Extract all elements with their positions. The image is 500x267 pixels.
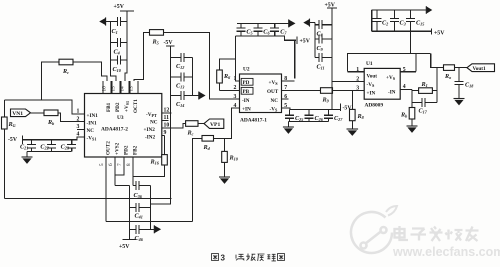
svg-text:+5V: +5V bbox=[114, 4, 125, 10]
wire left rail of bottom caps bbox=[115, 185, 130, 239]
capacitor C6 bbox=[253, 23, 270, 36]
svg-text:PD2: PD2 bbox=[115, 102, 121, 112]
power +5V bottom bbox=[119, 239, 137, 250]
pin 9 bbox=[162, 130, 167, 136]
svg-text:PD: PD bbox=[243, 80, 250, 86]
resistor R6 (PD pull) bbox=[217, 70, 231, 83]
wire junction down to R10 bbox=[224, 138, 226, 151]
pin 1 U1 bbox=[347, 67, 364, 73]
ground arrow left of C1 bbox=[99, 17, 110, 25]
svg-text:OUT2: OUT2 bbox=[106, 141, 112, 155]
svg-text:C7: C7 bbox=[280, 29, 287, 36]
input tag VP1 bbox=[204, 119, 224, 128]
resistor Rb bbox=[44, 110, 58, 126]
pin 13 box bbox=[129, 81, 138, 94]
svg-text:8: 8 bbox=[126, 163, 132, 166]
wire -5V rail to pin4 bbox=[23, 137, 85, 140]
wire up to Rd bbox=[193, 138, 203, 221]
svg-text:-IN1: -IN1 bbox=[87, 121, 97, 127]
svg-text:-IN: -IN bbox=[242, 98, 250, 104]
resistor R16 bbox=[150, 155, 168, 166]
resistor Ro bbox=[444, 65, 455, 80]
svg-text:C10: C10 bbox=[113, 66, 122, 73]
svg-text:NC: NC bbox=[150, 119, 158, 125]
output tag Vout1 bbox=[467, 64, 495, 72]
wire output node down to Ro bbox=[431, 54, 444, 68]
svg-text:R1: R1 bbox=[421, 81, 428, 88]
svg-text:RG: RG bbox=[8, 121, 16, 128]
svg-text:NC: NC bbox=[87, 128, 95, 134]
capacitor C17 (parallel R1) bbox=[412, 91, 437, 115]
svg-text:FB2: FB2 bbox=[133, 145, 139, 155]
capacitor C8 bbox=[315, 20, 332, 37]
svg-text:U1: U1 bbox=[366, 61, 373, 67]
svg-text:7: 7 bbox=[117, 163, 123, 166]
capacitor C11 bbox=[315, 53, 332, 70]
resistor Rc2 on VP1 wire bbox=[186, 121, 198, 137]
svg-text:C4: C4 bbox=[114, 49, 120, 56]
svg-text:4: 4 bbox=[234, 103, 237, 109]
wire R5 to U2 pin3 -IN bbox=[164, 32, 240, 99]
pin 4 U1 bbox=[400, 84, 412, 90]
capacitor C13 bbox=[171, 73, 193, 90]
svg-text:1: 1 bbox=[77, 109, 80, 115]
capacitor C41 bbox=[130, 203, 151, 219]
pin 6 box bbox=[108, 163, 114, 166]
svg-text:+VS1: +VS1 bbox=[124, 101, 130, 112]
svg-text:OUT: OUT bbox=[267, 89, 279, 95]
svg-text:C2: C2 bbox=[382, 20, 388, 27]
capacitor C21 bbox=[20, 140, 36, 152]
svg-text:C27: C27 bbox=[334, 115, 343, 122]
resistor R5 bbox=[150, 30, 164, 46]
wire pin6 drop to cap stack bbox=[114, 175, 116, 185]
svg-text:C1: C1 bbox=[112, 28, 118, 35]
svg-text:ADA4817-2: ADA4817-2 bbox=[101, 127, 128, 133]
svg-text:C12: C12 bbox=[176, 63, 184, 70]
ground arrow right of top rail bbox=[426, 6, 432, 14]
svg-text:Rb: Rb bbox=[400, 112, 407, 119]
wire R9 to U1 pin3 bbox=[333, 90, 362, 92]
wire bypass bottom rail bbox=[288, 121, 328, 123]
svg-text:Rc: Rc bbox=[62, 68, 69, 75]
power +5V right of U2 caps bbox=[297, 36, 311, 44]
wire U1 top caps rails bbox=[372, 10, 431, 31]
svg-text:C11: C11 bbox=[317, 64, 325, 71]
pin 5 U2 bbox=[282, 103, 291, 110]
svg-text:+VS: +VS bbox=[386, 75, 396, 81]
ground arrow right of C46 bbox=[151, 225, 162, 233]
wire left vertical feedback bbox=[3, 100, 5, 117]
power +5V mid-right bbox=[325, 3, 338, 9]
svg-text:3: 3 bbox=[356, 85, 359, 91]
pin 2 U2 bbox=[220, 85, 240, 91]
wire +5V stem through stack caps bbox=[331, 8, 333, 82]
pin 5 box bbox=[99, 163, 105, 166]
svg-text:+5V: +5V bbox=[434, 31, 445, 37]
capacitor C18 bbox=[455, 68, 475, 99]
wire cap left rail down to pin15 PD1 bbox=[110, 22, 115, 82]
pin 7 box bbox=[117, 163, 123, 166]
wire Ro to Vout1 bbox=[455, 67, 468, 69]
op-amp U1 AD8009 bbox=[364, 61, 400, 109]
ground below Rb2 bbox=[407, 119, 418, 133]
power -5V right end bbox=[341, 104, 353, 112]
wire R6 top to cap rail vertical bbox=[220, 59, 236, 70]
svg-text:VP1: VP1 bbox=[210, 122, 220, 128]
ground below R8 bbox=[347, 121, 359, 136]
pin 5 U1 bbox=[400, 67, 416, 73]
svg-text:C22: C22 bbox=[40, 144, 48, 151]
svg-text:+IN: +IN bbox=[367, 90, 376, 96]
capacitor C15 bbox=[406, 10, 424, 31]
wire VN1 to Rb bbox=[31, 112, 45, 114]
capacitor C25 bbox=[285, 110, 303, 123]
power -5V left bbox=[8, 136, 23, 145]
svg-text:4: 4 bbox=[77, 132, 80, 138]
svg-text:C13: C13 bbox=[176, 83, 184, 90]
ground arrow left of stack bbox=[303, 19, 315, 27]
svg-text:PB: PB bbox=[243, 89, 250, 95]
resistor R8 (load on -IN) bbox=[350, 91, 365, 121]
pin 14 box bbox=[120, 81, 129, 94]
svg-text:R9: R9 bbox=[322, 97, 330, 104]
svg-text:5: 5 bbox=[99, 163, 105, 166]
svg-text:3: 3 bbox=[77, 124, 80, 130]
svg-text:Ro: Ro bbox=[444, 73, 451, 80]
svg-text:3: 3 bbox=[221, 254, 226, 263]
wire OCT1 pin13 up to R5 bbox=[134, 32, 150, 81]
svg-text:C46: C46 bbox=[135, 235, 144, 242]
pin 10 bbox=[162, 123, 186, 129]
op-amp U2 ADA4817-1 bbox=[240, 67, 282, 124]
wire right rail of bottom caps bbox=[150, 185, 152, 229]
pin 6 U2 bbox=[282, 94, 289, 100]
svg-text:-VS: -VS bbox=[270, 107, 278, 113]
svg-text:C14: C14 bbox=[176, 101, 184, 108]
wire U2 caps left rail down to pin1 bbox=[235, 36, 239, 81]
svg-text:C23: C23 bbox=[61, 144, 69, 151]
svg-text:15: 15 bbox=[111, 86, 117, 92]
capacitor C5 bbox=[236, 23, 252, 36]
capacitor C2 bbox=[372, 10, 388, 31]
ground below bypass rail bbox=[283, 122, 294, 134]
svg-text:C9: C9 bbox=[317, 45, 324, 52]
wire OUT2 pin5 long vertical bbox=[105, 157, 107, 222]
wire bottom feedback rail bbox=[4, 198, 171, 200]
wire U2 caps top rail bbox=[237, 22, 289, 24]
resistor R10 bbox=[222, 151, 239, 162]
capacitor C22 bbox=[40, 140, 56, 152]
svg-text:C17: C17 bbox=[419, 108, 428, 115]
resistor R9 (inline OUT) bbox=[321, 88, 333, 104]
ground arrow right of C14 bbox=[193, 92, 206, 100]
svg-text:U3: U3 bbox=[117, 115, 124, 121]
wire -5V stem down to bottom jog bbox=[151, 46, 171, 204]
wire R16 to pin8 FB2 bbox=[133, 157, 165, 185]
svg-text:-5V: -5V bbox=[8, 137, 18, 143]
svg-text:3: 3 bbox=[234, 94, 237, 100]
svg-text:+5V: +5V bbox=[300, 39, 311, 45]
svg-text:6: 6 bbox=[108, 163, 114, 166]
svg-text:+VS2: +VS2 bbox=[115, 142, 121, 155]
resistor Rc (top feedback) bbox=[59, 59, 73, 75]
wire RG down to bottom feedback rail bbox=[3, 129, 5, 199]
wire pin9 down to R16 bbox=[164, 136, 166, 155]
svg-text:-VS: -VS bbox=[367, 82, 375, 88]
svg-text:14: 14 bbox=[120, 86, 126, 92]
svg-text:R8: R8 bbox=[357, 113, 365, 120]
svg-text:R10: R10 bbox=[229, 155, 239, 162]
svg-text:C5: C5 bbox=[246, 29, 252, 36]
wire U2 bypass top rail (-5V rail) bbox=[290, 109, 341, 111]
resistor R1 bbox=[419, 81, 433, 93]
capacitor C4 bbox=[110, 38, 127, 56]
svg-text:-5V: -5V bbox=[164, 40, 174, 46]
ground below R10 bbox=[219, 162, 230, 184]
ground below C18 bbox=[454, 99, 465, 106]
capacitor C12 bbox=[171, 53, 193, 70]
pin 3 U1 bbox=[356, 85, 364, 91]
svg-text:+IN2: +IN2 bbox=[144, 127, 156, 133]
capacitor C27 bbox=[324, 110, 343, 123]
svg-text:Vout1: Vout1 bbox=[473, 66, 486, 72]
pin 15 box bbox=[111, 81, 120, 94]
svg-text:2: 2 bbox=[77, 116, 80, 122]
pin 7 U2 OUT wire bbox=[282, 85, 321, 91]
resistor Rb2 below pin4 bbox=[400, 102, 415, 119]
svg-text:PD2: PD2 bbox=[124, 145, 130, 155]
wire cap bottom rail bbox=[27, 151, 72, 153]
capacitor C10 bbox=[110, 56, 127, 74]
svg-text:R6: R6 bbox=[223, 73, 231, 80]
wire R6 bottom to pin2 bbox=[219, 83, 221, 91]
svg-text:C21: C21 bbox=[20, 144, 28, 151]
svg-text:Rd: Rd bbox=[203, 144, 211, 151]
svg-text:C41: C41 bbox=[135, 213, 143, 220]
pin 16 box bbox=[102, 81, 111, 94]
wire pin6-pin7 loop bbox=[115, 157, 124, 175]
pin 3 bbox=[77, 124, 85, 130]
svg-text:VN1: VN1 bbox=[12, 111, 23, 117]
svg-text:OCT1: OCT1 bbox=[133, 99, 139, 113]
svg-text:Rc: Rc bbox=[187, 130, 194, 137]
svg-text:16: 16 bbox=[102, 86, 108, 92]
svg-text:C8: C8 bbox=[317, 31, 324, 38]
capacitor C46 bbox=[130, 225, 151, 242]
capacitor C9 bbox=[315, 35, 332, 53]
svg-text:C18: C18 bbox=[465, 82, 474, 89]
wire R1 right up to output node bbox=[432, 68, 437, 91]
svg-text:R5: R5 bbox=[152, 39, 159, 46]
capacitor C23 bbox=[61, 140, 77, 152]
svg-text:-VPT: -VPT bbox=[146, 112, 157, 118]
watermark logo circle bbox=[351, 206, 397, 253]
capacitor C3 bbox=[390, 10, 406, 31]
wire feedback over U1 bbox=[347, 54, 430, 72]
capacitor C36 bbox=[133, 181, 151, 199]
wire pin8 up to +5V stub bbox=[294, 40, 296, 78]
svg-text:+5V: +5V bbox=[119, 244, 130, 250]
svg-text:13: 13 bbox=[129, 86, 135, 92]
input tag VN1 bbox=[11, 109, 31, 117]
ground arrow right of U2 cap rail bbox=[289, 19, 296, 27]
svg-text:Rb: Rb bbox=[47, 119, 54, 126]
svg-text:U2: U2 bbox=[243, 67, 250, 73]
wire U2 caps bottom rail to +5V bbox=[235, 36, 296, 40]
wire right rail of mid caps bbox=[192, 58, 194, 96]
svg-text:+IN1: +IN1 bbox=[87, 113, 99, 119]
wire Rc2 to VP1 bbox=[198, 123, 204, 125]
power +5V top-left bbox=[114, 4, 135, 11]
svg-text:C15: C15 bbox=[416, 20, 424, 27]
wire Rc to pin16 FB1 bbox=[73, 62, 107, 81]
svg-text:R16: R16 bbox=[150, 159, 160, 166]
svg-text:+IN: +IN bbox=[242, 107, 251, 113]
capacitor C14 bbox=[171, 91, 193, 108]
wire pin4 junction bbox=[412, 90, 419, 91]
resistor RG bbox=[2, 117, 16, 129]
svg-text:NC: NC bbox=[271, 98, 279, 104]
svg-text:-VS1: -VS1 bbox=[87, 136, 97, 142]
wire Rc branch up from +IN1 node bbox=[41, 62, 59, 100]
capacitor C1 bbox=[110, 17, 127, 35]
wire Rb to pin2 of U3 bbox=[58, 113, 85, 122]
wire U1 -Vs down to -5V rail bbox=[331, 82, 333, 110]
watermark text 电子发烧友 (vector glyphs) bbox=[395, 226, 479, 241]
pin 11 bbox=[162, 115, 169, 121]
wire stack left rail bbox=[314, 23, 316, 58]
svg-text:C36: C36 bbox=[134, 192, 143, 199]
svg-text:FB1: FB1 bbox=[106, 102, 112, 112]
svg-text:AD8009: AD8009 bbox=[365, 102, 384, 108]
capacitor C7 bbox=[270, 23, 287, 36]
ground left caps bbox=[22, 152, 33, 164]
caption 图3 运放原理图 (vector glyphs) bbox=[212, 254, 285, 263]
pin 8 box bbox=[126, 163, 132, 166]
pin 8 U2 bbox=[282, 76, 295, 82]
svg-text:C6: C6 bbox=[263, 29, 270, 36]
svg-text:ADA4817-1: ADA4817-1 bbox=[240, 117, 267, 123]
svg-text:Vout: Vout bbox=[367, 73, 378, 79]
wire U1 top caps left vert bbox=[371, 10, 373, 31]
power +5V top right bbox=[432, 28, 446, 36]
resistor Rd bbox=[202, 136, 214, 152]
power -5V mid bbox=[164, 40, 175, 46]
svg-text:www.elecfans.com: www.elecfans.com bbox=[392, 245, 500, 259]
pin 12 bbox=[162, 108, 172, 114]
svg-text:C3: C3 bbox=[400, 20, 406, 27]
node wire +IN1 (top horizontal) bbox=[4, 100, 84, 114]
wire cap rail down to feedback wire bbox=[410, 31, 412, 53]
svg-text:-IN: -IN bbox=[388, 90, 396, 96]
op-amp U3 ADA4817-2 bbox=[85, 94, 162, 158]
wire +5V stem down to pin14 bbox=[125, 11, 127, 81]
pin 2 U1 bbox=[332, 77, 364, 83]
wire bottom OUT2 run bbox=[106, 221, 193, 223]
capacitor C26 bbox=[305, 110, 324, 123]
wire Rd to U2 pin4 +IN bbox=[214, 108, 240, 138]
svg-text:+VS: +VS bbox=[269, 80, 279, 86]
svg-text:-IN2: -IN2 bbox=[145, 134, 155, 140]
